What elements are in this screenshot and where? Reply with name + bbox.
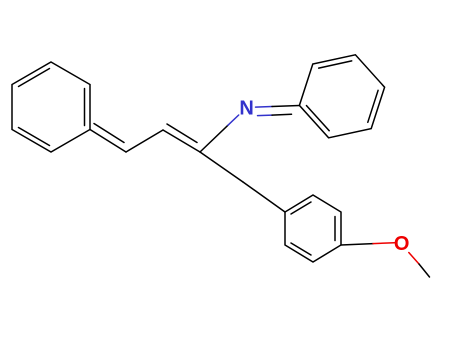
chain from left ring to N [90, 115, 239, 152]
bond O to methyl [409, 253, 430, 278]
left phenyl ring [12, 62, 90, 152]
top right phenyl ring [299, 55, 384, 138]
connector chain to bottom ring [200, 152, 285, 212]
bottom ring (4-methoxyphenyl) [285, 195, 341, 262]
N=C double bond to top-right ring [256, 106, 300, 116]
bond ring to O [341, 243, 395, 245]
svg-text:O: O [394, 233, 410, 255]
svg-text:N: N [239, 98, 253, 120]
